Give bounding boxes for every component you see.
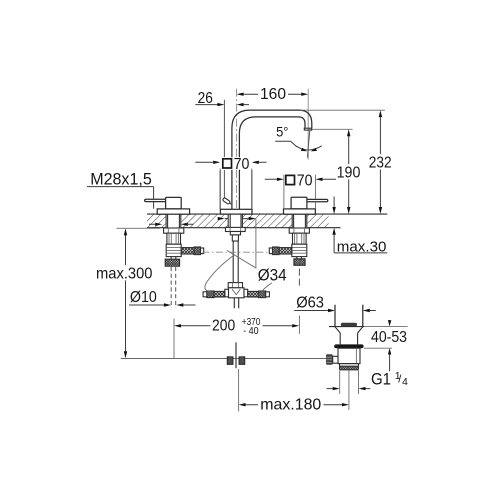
- dim dia10 line and tails: [129, 304, 196, 306]
- tee body: [229, 288, 245, 298]
- svg-text:160: 160: [260, 86, 286, 103]
- left handle hose stub end: [201, 248, 204, 254]
- left handle hose stub nut: [194, 247, 201, 255]
- pull rod knob: [222, 197, 230, 204]
- left handle lower block: [166, 244, 181, 256]
- spout tube inner contour: [239, 117, 305, 157]
- dim 232 line upper: [379, 116, 381, 154]
- dim 232 line lower: [379, 170, 381, 209]
- drain lower collar: [340, 364, 359, 367]
- dim sq70 spout: left tail: [195, 161, 266, 163]
- left handle inlet pipe dashed: [171, 267, 176, 308]
- tee right flange: [244, 289, 248, 297]
- dia34 curved leader to tee right: [258, 283, 272, 296]
- dia34 left handle right arrow: [181, 223, 188, 226]
- left handle escutcheon plate: [157, 209, 189, 214]
- right handle lower block: [292, 244, 307, 256]
- G1 1/4 left arrow: [333, 387, 340, 390]
- pop-up vertical rod at joint: [235, 342, 237, 368]
- svg-text:Ø34: Ø34: [258, 266, 287, 284]
- dim max180 line: [246, 404, 342, 406]
- spout shank adapter: [230, 232, 240, 235]
- dim sq70 right handle left arrow: [277, 178, 284, 181]
- drain body inner line: [355, 348, 357, 363]
- drain funnel taper: [335, 327, 363, 333]
- dia34 leader to center hole: [227, 250, 257, 268]
- dim max300 top arrow: [124, 228, 127, 235]
- drain plug dome: [341, 323, 357, 327]
- dim 190 top arrow: [347, 129, 350, 136]
- angle 5deg leader: [275, 141, 297, 147]
- svg-text:Ø63: Ø63: [296, 294, 324, 311]
- dim 232 bottom arrow: [379, 207, 382, 214]
- svg-text:5°: 5°: [276, 124, 288, 140]
- left handle shank through deck: [168, 214, 180, 228]
- label M28x1,5 leader: [87, 187, 154, 209]
- left handle lever: [145, 199, 167, 201]
- G1 1/4 ext lines: [340, 370, 359, 394]
- right handle body: [291, 197, 307, 209]
- drain main body: [338, 348, 360, 363]
- dim 40-53 bottom arrow: [388, 348, 391, 354]
- dim 40-53 top tail: [389, 319, 391, 321]
- svg-text:190: 190: [337, 165, 361, 182]
- angle 5deg arc: [296, 146, 322, 150]
- hose centerline dash-dot: [202, 251, 269, 253]
- dim 190 bottom arrow: [347, 207, 350, 214]
- spout base column edges: [220, 170, 252, 209]
- drain center ext line: [348, 370, 350, 410]
- dim 40-53 seal ref line: [364, 347, 392, 349]
- dim 190 line lower: [348, 179, 350, 208]
- spout tube lower segments: [232, 170, 240, 209]
- svg-text:70: 70: [297, 172, 313, 189]
- dim sq70 spout square symbol: [223, 159, 232, 168]
- svg-text:200: 200: [212, 318, 236, 335]
- right handle hose stub braided: [279, 248, 292, 254]
- tee top nut: [228, 283, 242, 288]
- dim 160 line: [244, 93, 302, 95]
- dim max300 top ref line: [116, 227, 160, 229]
- left handle valve body: [167, 233, 181, 244]
- dim sq70 right handle right arrow: [316, 178, 323, 181]
- dia34 hole arrows at spout: [225, 218, 249, 220]
- dim sq70 spout left arrow: [213, 161, 220, 164]
- dim 26 left arrow: [217, 103, 224, 106]
- svg-text:max.180: max.180: [260, 397, 321, 414]
- sink floor line: [329, 326, 364, 328]
- dim max300 bottom arrow: [124, 351, 127, 358]
- G1 1/4 right tail: [366, 388, 371, 390]
- G1 1/4 right arrow: [359, 387, 366, 390]
- svg-text:max.300: max.300: [96, 265, 153, 282]
- drain mid cylinder: [340, 333, 357, 345]
- dim max30 tail bottom and underline: [334, 235, 387, 253]
- left handle mounting nut: [164, 228, 184, 233]
- spout outlet mousseur: [304, 128, 311, 130]
- dim 200 left arrow: [174, 324, 181, 327]
- right handle lever: [307, 199, 328, 201]
- spout base plate: [220, 209, 252, 214]
- spout riser pipe below deck: [233, 241, 238, 283]
- spout mounting nut: [226, 227, 246, 231]
- drain rubber seal band: [334, 344, 363, 348]
- dim 200 line: [181, 325, 292, 327]
- svg-text:4: 4: [402, 376, 408, 388]
- dim 200 ext line right: [298, 316, 300, 334]
- tee left hose end: [203, 292, 207, 297]
- right handle hose stub end: [269, 248, 272, 254]
- drain knurled knob: [326, 354, 333, 365]
- pull rod bend into base: [229, 202, 232, 205]
- tee right hose end: [266, 292, 270, 297]
- dim dia10 right arrow: [176, 303, 183, 306]
- joint left clamp: [227, 357, 233, 365]
- dim dia63 right arrow: [363, 309, 370, 312]
- right handle mounting nut: [289, 228, 309, 233]
- spout riser centerline: [236, 89, 238, 209]
- right handle shank through deck: [294, 214, 306, 228]
- tee right hose nut: [259, 291, 266, 298]
- dim sq70 right handle: tails: [265, 178, 336, 180]
- svg-text:40-53: 40-53: [371, 329, 407, 346]
- dim 232 top arrow: [379, 110, 382, 117]
- tee outlet pipe: [234, 298, 238, 309]
- dim max300 line: [125, 235, 127, 351]
- dim 26 line: [195, 104, 249, 106]
- spout compression collar: [232, 235, 238, 241]
- right handle escutcheon plate: [284, 209, 316, 214]
- svg-text:70: 70: [234, 156, 250, 173]
- ref line spout top height: [300, 109, 385, 111]
- spout shank through deck: [230, 214, 241, 227]
- dim 200 ext line left: [173, 319, 175, 359]
- left handle bottom neck: [171, 257, 176, 260]
- svg-text:M28x1,5: M28x1,5: [90, 170, 152, 188]
- dia34 hole arrows at left handle: [149, 223, 194, 225]
- dim dia63 tails: [294, 310, 376, 312]
- tee right hose braided: [248, 291, 259, 297]
- dim dia10 left arrow: [164, 303, 171, 306]
- joint right clamp: [239, 357, 245, 365]
- dim max30 bottom arrow: [332, 228, 335, 235]
- pop-up horizontal actuating rod: [121, 358, 326, 360]
- right handle hose stub nut: [273, 247, 280, 255]
- dim 160 right arrow: [301, 93, 308, 96]
- dia34 spout right arrow: [249, 217, 256, 220]
- dim max180 right arrow: [342, 403, 349, 406]
- dim sq70 right handle square symbol: [286, 175, 295, 184]
- angle arc left arrowhead: [301, 148, 307, 152]
- G1 1/4 left tail: [327, 388, 333, 390]
- drain flange cylinder: [335, 305, 363, 327]
- right handle inlet centerline dashed: [298, 269, 300, 287]
- dim max30 tail top: [333, 197, 335, 208]
- dia34 drop leader line: [255, 219, 257, 268]
- dia34 curved leader to tee left: [205, 255, 235, 293]
- svg-text:G1: G1: [371, 370, 391, 388]
- dim max180 left arrow: [239, 403, 246, 406]
- dim dia63 left arrow: [328, 309, 335, 312]
- dim 40-53 top ref line: [364, 326, 407, 328]
- pop-up pull rod line: [223, 100, 225, 199]
- right handle bottom hose nut: [294, 259, 305, 266]
- spout outlet centerline: [307, 89, 309, 160]
- dim sq70 right handle ext lines: [284, 175, 316, 209]
- left handle hose stub braided: [181, 248, 194, 254]
- spout tube outer contour: [232, 110, 312, 157]
- dia34 spout left arrow: [218, 217, 225, 220]
- drain thread band: [340, 366, 359, 370]
- dim 160 left arrow: [237, 93, 244, 96]
- dim sq70 spout ext lines: [220, 169, 252, 210]
- countertop hatched section: [147, 214, 387, 228]
- dim max30 top arrow: [332, 207, 335, 214]
- water stream 5-degree line: [307, 129, 310, 158]
- dim 40-53 top arrow: [388, 320, 391, 326]
- ref line spout outlet height: [312, 128, 353, 130]
- svg-text:max.30: max.30: [337, 238, 387, 255]
- svg-text:232: 232: [369, 155, 392, 172]
- dim sq70 spout right arrow: [252, 161, 259, 164]
- tee left flange: [225, 289, 229, 297]
- angle arc right arrowhead: [311, 148, 317, 152]
- countertop bottom line: [147, 227, 341, 229]
- dim max180 left ext line: [238, 369, 240, 412]
- tee left hose nut: [207, 291, 214, 298]
- dim 200 right arrow: [292, 324, 299, 327]
- left handle body: [166, 197, 182, 209]
- dim 40-53 bottom tail: [389, 355, 391, 372]
- tee left hose braided: [214, 291, 225, 297]
- countertop top surface line: [147, 213, 387, 215]
- dim 190 line upper: [348, 135, 350, 164]
- right handle bottom neck: [297, 257, 302, 259]
- svg-text:Ø10: Ø10: [130, 289, 157, 306]
- drain knob connector: [333, 356, 338, 363]
- dia34 left handle left arrow: [155, 223, 162, 226]
- left handle bottom hose nut: [165, 259, 179, 266]
- hole edge cut faces: [166, 214, 307, 228]
- right handle valve body: [293, 233, 307, 244]
- svg-text:- 40: - 40: [243, 325, 259, 337]
- dim 26 right arrow: [237, 103, 244, 106]
